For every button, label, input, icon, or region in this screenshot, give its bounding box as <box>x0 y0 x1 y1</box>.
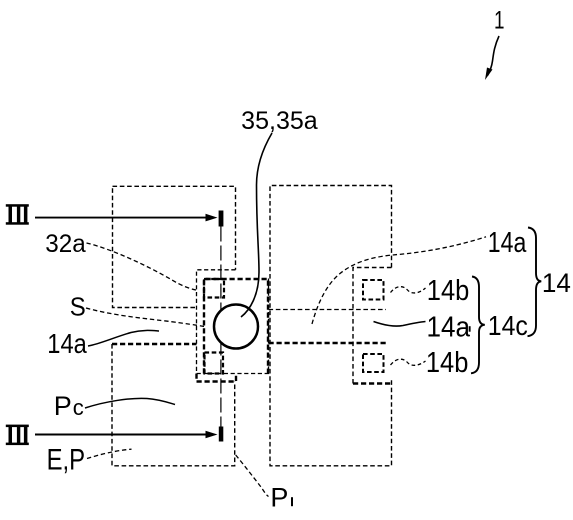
leader: 14b upper dashed squiggle <box>391 287 426 293</box>
line: lower-left pad bold top edge <box>112 343 235 345</box>
svg-text:P: P <box>270 483 288 513</box>
square: 14b lower <box>363 354 384 372</box>
line: horizontal arm thin upper y=309.5 <box>269 309 387 311</box>
circle: nozzle 35,35a <box>214 305 258 349</box>
leader: 14a-left solid wavy <box>88 330 159 346</box>
leader: 14b lower dashed squiggle <box>391 359 426 365</box>
svg-text:32a: 32a <box>45 230 86 258</box>
leader: 14a-right dashed arc <box>312 237 486 324</box>
svg-text:1: 1 <box>494 7 505 35</box>
leader: P1 dashed <box>236 455 269 497</box>
glyph: Roman III lower <box>6 425 29 446</box>
label: 14a1 subscript bar <box>469 326 471 332</box>
svg-text:14a: 14a <box>427 311 471 343</box>
svg-text:35,35a: 35,35a <box>241 107 318 135</box>
leader: E,P dashed <box>87 449 132 458</box>
leader: Pc solid wavy <box>85 398 175 408</box>
svg-text:14a: 14a <box>488 227 527 259</box>
svg-text:14b: 14b <box>427 275 470 307</box>
svg-text:14b: 14b <box>426 347 469 379</box>
square: 32a bold <box>204 279 224 298</box>
leader: 14a1 solid wavy <box>374 322 426 327</box>
path: center bold bottom bulge <box>197 374 237 382</box>
svg-text:S: S <box>70 294 86 322</box>
leader: 32a dashed <box>87 243 197 290</box>
path: center bold rect top/left/right <box>204 279 268 374</box>
svg-text:Pc: Pc <box>54 391 84 421</box>
rect: center nozzle plate thin dashed outline <box>197 270 269 374</box>
line: III-III section center line <box>220 227 222 427</box>
rect: lower-left pad (sides) <box>112 344 235 466</box>
square: P1 bold <box>205 353 224 374</box>
tick: lower section tick <box>219 427 224 442</box>
svg-text:14c: 14c <box>488 310 528 341</box>
rect: upper-left pad 14a <box>113 186 236 307</box>
line: horizontal arm bold lower y=343 <box>269 342 387 344</box>
rect: center nozzle plate white mask <box>197 270 269 374</box>
glyph: Roman III upper <box>6 204 29 225</box>
arrow: lower III arrow <box>35 434 207 436</box>
rect: right pad 14a tall (right edge gapped at small pad) <box>270 186 392 466</box>
square: 14b upper <box>363 280 384 300</box>
brace: 14c medium <box>471 277 485 374</box>
svg-text:14: 14 <box>542 268 571 298</box>
tick: upper section tick <box>219 211 224 227</box>
leader: S dashed <box>86 308 204 327</box>
leader: 35,35a solid curve <box>241 133 272 317</box>
brace: 14 large <box>528 228 542 337</box>
arrow: figure number 1 curved arrow <box>488 36 500 76</box>
svg-text:14a: 14a <box>47 328 87 359</box>
svg-text:E,P: E,P <box>47 444 86 477</box>
line: small right pad bold bottom <box>353 382 392 384</box>
arrow: upper III arrow <box>35 217 207 219</box>
rect: small right pad 14c <box>353 268 392 384</box>
